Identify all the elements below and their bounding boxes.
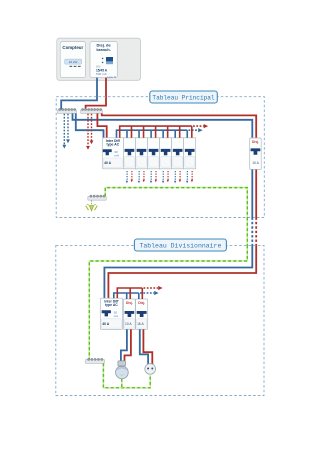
wire: circuit 2 phase out (dashed) <box>143 171 145 182</box>
socket outlet <box>145 364 156 375</box>
wire: socket phase <box>143 329 152 364</box>
svg-text:40 A: 40 A <box>104 161 112 165</box>
svg-text:10 A: 10 A <box>252 161 259 165</box>
earth symbol <box>86 200 98 211</box>
svg-text:40 A: 40 A <box>102 322 110 326</box>
label: Tableau Divisionnaire <box>134 239 226 251</box>
breaker Q1 <box>123 138 135 169</box>
wire: circuit 4 neutral out (dashed) <box>162 171 164 183</box>
wire: circuit 2 neutral out (dashed) <box>138 171 140 183</box>
svg-text:500 mA: 500 mA <box>96 72 108 76</box>
meter Compteur <box>60 42 85 78</box>
svg-text:Tableau Principal: Tableau Principal <box>152 95 215 102</box>
svg-text:Compteur: Compteur <box>62 45 83 50</box>
wire: neutral comb bus TD <box>114 291 159 299</box>
ground wire TP run <box>105 188 247 218</box>
breaker Q5 <box>172 138 184 169</box>
neutral wire QD to TD <box>104 170 252 299</box>
svg-text:16 A: 16 A <box>137 322 144 326</box>
phase wire QD to TD <box>108 170 256 299</box>
RCD Inter Diff U2 <box>100 298 122 329</box>
phase busbar P1 <box>81 108 103 113</box>
label: Tableau Principal <box>150 91 218 103</box>
wire: neutral feeder to departure breaker QD <box>73 113 253 138</box>
breaker Q6 <box>184 138 196 169</box>
wire: spare neutral circuit B (dashed arrow) <box>66 114 70 144</box>
wire: phase comb bus TD <box>117 286 162 299</box>
svg-text:branch.: branch. <box>96 47 110 52</box>
wire: circuit 5 phase out (dashed) <box>179 171 181 182</box>
wire: spare neutral circuit A (dashed arrow) <box>62 114 66 149</box>
wire: circuit 6 phase out (dashed) <box>191 171 193 182</box>
wire: socket neutral <box>140 329 148 364</box>
ground wire TD run to ground bar <box>89 245 247 359</box>
wire: spare phase circuit A (dashed arrow) <box>86 114 90 150</box>
ground bar TP <box>88 195 107 200</box>
wire: lamp neutral <box>121 329 127 361</box>
svg-text:type S: type S <box>107 75 116 79</box>
wire: neutral input to Inter Diff U1 <box>76 113 104 137</box>
wire: circuit 4 phase out (dashed) <box>167 171 169 182</box>
meter panel enclosure <box>57 38 141 80</box>
departure breaker QD <box>250 138 262 170</box>
ground wire TD bottom run <box>103 363 150 388</box>
svg-text:Disj.: Disj. <box>126 301 133 305</box>
wire: circuit 6 neutral out (dashed) <box>186 171 188 183</box>
breaker D1 10A <box>124 299 136 329</box>
breaker Q2 <box>135 138 147 169</box>
Tableau Principal enclosure <box>56 97 264 218</box>
wire: neutral comb bus TP <box>117 128 203 138</box>
service breaker Disj. de branch. <box>90 42 117 80</box>
ground wire lamp branch <box>121 379 123 388</box>
ground bar TD <box>85 358 104 363</box>
svg-text:Tableau Divisionnaire: Tableau Divisionnaire <box>139 243 221 250</box>
svg-text:10 A: 10 A <box>125 322 132 326</box>
breaker D2 16A <box>136 299 148 329</box>
Tableau Divisionnaire enclosure <box>56 245 264 395</box>
wire: phase comb bus TP <box>120 124 208 138</box>
wire: circuit 3 phase out (dashed) <box>155 171 157 182</box>
wire: service neutral to busbar N1 <box>61 78 97 110</box>
wire: spare phase circuit B (dashed arrow) <box>90 114 94 145</box>
neutral busbar N1 <box>58 108 77 113</box>
wire: circuit 5 neutral out (dashed) <box>174 171 176 183</box>
wire: phase feeder to departure breaker QD <box>102 113 256 138</box>
svg-text:type AC: type AC <box>106 143 119 147</box>
svg-text:Disj.: Disj. <box>138 301 145 305</box>
wire: lamp phase <box>125 329 131 361</box>
svg-text:type AC: type AC <box>105 303 118 307</box>
wire: phase input to Inter Diff U1 <box>97 113 106 137</box>
RCD Inter Diff U1 <box>102 138 123 169</box>
svg-text:18 kW: 18 kW <box>69 60 78 64</box>
wire: circuit 3 neutral out (dashed) <box>150 171 152 183</box>
lamp L1 <box>116 361 129 379</box>
wire: service phase to busbar P1 <box>86 78 106 110</box>
svg-text:Disj.: Disj. <box>252 140 259 144</box>
wire: circuit 1 neutral out (dashed) <box>126 171 128 183</box>
breaker Q3 <box>148 138 160 169</box>
ground wire gap TP to TD <box>246 218 248 246</box>
wire: circuit 1 phase out (dashed) <box>131 171 133 182</box>
breaker Q4 <box>160 138 172 169</box>
